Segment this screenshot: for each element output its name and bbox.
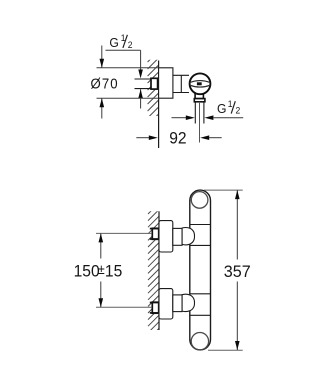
lower escutcheon xyxy=(159,289,173,319)
svg-text:G: G xyxy=(109,36,118,50)
upper pipe stub at wall xyxy=(150,228,159,239)
upper union cone xyxy=(182,228,194,245)
pipe stub / wall connection (top drawing) xyxy=(151,78,158,89)
escutcheon flange (top drawing, side view) xyxy=(159,68,173,98)
wall line (bottom drawing) xyxy=(158,211,160,330)
dimension 92 xyxy=(136,135,221,140)
svg-text:357: 357 xyxy=(224,261,251,280)
body joint line lower-bottom xyxy=(190,314,211,316)
connector body between flange and ball xyxy=(173,75,189,92)
svg-text:15: 15 xyxy=(105,262,122,281)
dimension lines Ø70 xyxy=(97,46,159,119)
mixer body (vertical capsule) xyxy=(190,190,211,350)
lower pipe stub at wall xyxy=(150,302,159,313)
slot band arcs inside ball xyxy=(190,81,210,88)
dimension G 1/2 top: leader and arrows xyxy=(106,50,143,108)
svg-text:Ø70: Ø70 xyxy=(91,75,119,92)
screw slot square in ball xyxy=(197,82,202,85)
wall line (top drawing) xyxy=(158,61,160,149)
lower knob circle xyxy=(191,333,208,350)
upper escutcheon xyxy=(159,221,173,252)
collar / nut under ball xyxy=(194,94,205,102)
label G 1/2 (bottom right) xyxy=(217,99,240,116)
lower union nut xyxy=(173,295,182,312)
dimension 150±15 xyxy=(96,233,152,307)
outlet pipe below ball xyxy=(195,102,204,124)
outlet pipe centerline xyxy=(199,102,201,143)
svg-text:G: G xyxy=(217,102,226,116)
ball valve body (circle) xyxy=(190,73,211,94)
svg-text:92: 92 xyxy=(169,129,186,148)
svg-text:150: 150 xyxy=(74,262,100,281)
body joint line upper-top xyxy=(190,224,211,226)
body joint line lower-top xyxy=(190,293,211,295)
svg-text:±: ± xyxy=(98,262,105,278)
lower union cone xyxy=(182,294,194,311)
body joint line upper-bottom xyxy=(190,244,211,246)
upper union nut xyxy=(173,228,182,245)
svg-text:2: 2 xyxy=(128,40,133,50)
dimension 357 xyxy=(204,190,243,350)
label G 1/2 (top) xyxy=(109,33,132,51)
upper knob circle xyxy=(191,192,208,209)
supply pipe in wall (top drawing) xyxy=(135,79,152,89)
svg-text:1: 1 xyxy=(228,99,233,109)
svg-text:2: 2 xyxy=(236,105,241,115)
dimension G 1/2 bottom-right: arrows xyxy=(172,115,244,120)
